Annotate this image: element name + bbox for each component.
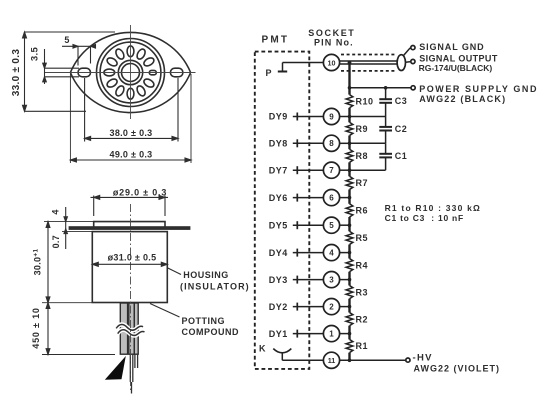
- svg-text:R4: R4: [356, 260, 369, 270]
- svg-text:DY7: DY7: [269, 165, 288, 175]
- svg-text:P: P: [266, 68, 273, 78]
- svg-text:DY3: DY3: [269, 275, 288, 285]
- svg-text:5: 5: [329, 221, 334, 230]
- svg-text:R1: R1: [356, 341, 369, 351]
- svg-text:33.0 ± 0.3: 33.0 ± 0.3: [11, 49, 22, 97]
- svg-text:R7: R7: [356, 178, 369, 188]
- svg-text:38.0 ± 0.3: 38.0 ± 0.3: [110, 128, 153, 138]
- svg-text:7: 7: [329, 166, 334, 175]
- svg-text:SIGNAL GND: SIGNAL GND: [419, 42, 484, 52]
- svg-text:8: 8: [329, 139, 334, 148]
- svg-text:9: 9: [329, 112, 334, 121]
- svg-text:DY1: DY1: [269, 329, 288, 339]
- svg-text:C1: C1: [395, 151, 408, 161]
- svg-text:DY4: DY4: [269, 248, 288, 258]
- svg-text:SOCKET: SOCKET: [308, 28, 355, 38]
- svg-text:PIN No.: PIN No.: [314, 38, 354, 48]
- svg-text:5: 5: [64, 35, 69, 45]
- svg-text:ø29.0 ± 0.3: ø29.0 ± 0.3: [113, 188, 167, 198]
- svg-text:3.5: 3.5: [30, 47, 41, 62]
- svg-text:DY2: DY2: [269, 302, 288, 312]
- svg-text:K: K: [259, 344, 266, 354]
- svg-text:AWG22 (BLACK): AWG22 (BLACK): [419, 94, 506, 104]
- svg-text:POWER SUPPLY GND: POWER SUPPLY GND: [419, 84, 538, 94]
- svg-text:11: 11: [328, 356, 336, 365]
- svg-text:R8: R8: [356, 151, 369, 161]
- svg-text:DY8: DY8: [269, 139, 288, 149]
- svg-text:450 ± 10: 450 ± 10: [31, 307, 41, 348]
- svg-text:6: 6: [329, 193, 334, 202]
- svg-text:PMT: PMT: [262, 35, 290, 46]
- svg-text:HOUSING: HOUSING: [183, 270, 229, 280]
- svg-text:4: 4: [329, 248, 334, 257]
- svg-text:0.7: 0.7: [51, 235, 61, 248]
- svg-text:C3: C3: [395, 96, 408, 106]
- svg-text:R9: R9: [356, 124, 369, 134]
- svg-text:1: 1: [329, 329, 334, 338]
- svg-text:ø31.0 ± 0.5: ø31.0 ± 0.5: [108, 252, 157, 262]
- svg-text:DY9: DY9: [269, 112, 288, 122]
- svg-text:R6: R6: [356, 206, 369, 216]
- svg-text:DY5: DY5: [269, 220, 288, 230]
- svg-text:R2: R2: [356, 314, 369, 324]
- svg-text:COMPOUND: COMPOUND: [182, 327, 240, 337]
- svg-text:3: 3: [329, 275, 334, 284]
- svg-text:RG-174/U(BLACK): RG-174/U(BLACK): [419, 63, 493, 73]
- svg-text:R10: R10: [356, 96, 374, 106]
- svg-text:49.0 ± 0.3: 49.0 ± 0.3: [110, 150, 153, 160]
- svg-text:4: 4: [51, 209, 61, 214]
- svg-text:DY6: DY6: [269, 193, 288, 203]
- svg-text:R1 to R10 : 330 kΩ: R1 to R10 : 330 kΩ: [385, 203, 481, 213]
- svg-text:R5: R5: [356, 233, 369, 243]
- svg-text:C1 to C3 : 10 nF: C1 to C3 : 10 nF: [385, 213, 464, 223]
- svg-text:10: 10: [328, 58, 336, 67]
- svg-text:-HV: -HV: [413, 352, 433, 363]
- svg-text:2: 2: [329, 302, 334, 311]
- svg-text:C2: C2: [395, 124, 408, 134]
- svg-text:AWG22 (VIOLET): AWG22 (VIOLET): [414, 363, 501, 373]
- svg-text:R3: R3: [356, 287, 369, 297]
- svg-text:POTTING: POTTING: [182, 316, 226, 326]
- svg-text:(INSULATOR): (INSULATOR): [180, 282, 250, 292]
